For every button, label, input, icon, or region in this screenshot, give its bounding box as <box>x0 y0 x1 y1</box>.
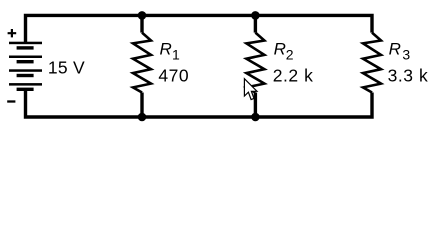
battery V1 short plate 3 <box>17 74 34 77</box>
svg-text:2: 2 <box>286 47 294 63</box>
svg-text:3.3 k: 3.3 k <box>388 66 429 86</box>
svg-text:R: R <box>274 40 286 59</box>
resistor R3 zigzag <box>363 33 381 93</box>
wire: R1 branch bottom drop <box>140 93 143 118</box>
wire: R2 branch bottom drop <box>254 93 257 118</box>
svg-text:470: 470 <box>158 66 189 86</box>
svg-text:R: R <box>389 40 401 59</box>
wire: top bus with left and right corner drops <box>26 15 373 43</box>
battery V1 long plate 3 <box>9 69 42 72</box>
svg-text:3: 3 <box>402 47 410 63</box>
wire: bottom bus with left and right risers <box>26 90 373 117</box>
resistor R1 zigzag <box>133 33 151 93</box>
battery V1 minus sign <box>7 100 15 102</box>
battery V1 long plate 4 <box>9 83 42 86</box>
battery V1 short plate 2 <box>17 60 34 63</box>
battery V1 long plate 1 <box>9 42 42 45</box>
battery V1 short plate 4 <box>17 88 34 91</box>
junction dot bottom R2 <box>251 113 260 122</box>
junction dot top R1 <box>138 11 147 20</box>
resistor R2 zigzag <box>246 33 264 93</box>
battery V1 short plate 1 <box>17 46 34 49</box>
junction dot bottom R1 <box>138 113 147 122</box>
junction dot top R2 <box>251 11 260 20</box>
wire: R1 branch top drop <box>140 15 143 32</box>
svg-text:2.2 k: 2.2 k <box>273 66 314 86</box>
battery V1 plus sign <box>8 29 17 37</box>
svg-text:R: R <box>160 40 172 59</box>
wire: R2 branch top drop <box>254 15 257 32</box>
svg-text:1: 1 <box>172 47 180 63</box>
svg-text:15 V: 15 V <box>48 57 85 77</box>
battery V1 long plate 2 <box>9 56 42 59</box>
mouse cursor <box>244 79 257 100</box>
